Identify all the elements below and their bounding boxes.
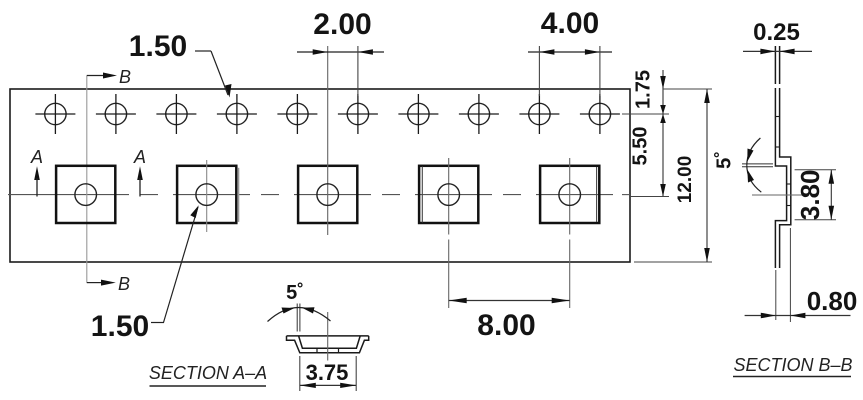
svg-text:1.75: 1.75: [632, 70, 654, 109]
sprocket hole S1: [35, 94, 75, 134]
svg-text:0.25: 0.25: [753, 19, 800, 46]
svg-text:0.80: 0.80: [807, 286, 858, 316]
title SECTION A-A: [149, 363, 267, 386]
dim 5.50: [629, 114, 669, 197]
pocket P3: [298, 46, 357, 235]
dim 4.00: [528, 7, 612, 96]
dim 0.80: [745, 228, 858, 322]
dim 0.25: [743, 19, 812, 54]
svg-text:8.00: 8.00: [477, 309, 535, 342]
title SECTION B-B: [733, 355, 853, 377]
svg-text:B: B: [119, 67, 131, 87]
sprocket hole S5: [277, 94, 317, 134]
pocket P5: [540, 158, 599, 308]
sprocket ticks: [775, 116, 779, 118]
sprocket hole S4: [217, 94, 257, 134]
svg-text:5.50: 5.50: [629, 127, 651, 166]
horizontal centerline: [8, 194, 630, 196]
sprocket hole S3: [156, 94, 196, 134]
tape outline: [10, 89, 630, 262]
pocket P2: [177, 160, 238, 232]
right surface line: [779, 46, 781, 84]
svg-text:5˚: 5˚: [712, 151, 735, 169]
svg-text:5˚: 5˚: [286, 281, 304, 304]
pocket P1: [56, 166, 115, 223]
svg-text:1.50: 1.50: [129, 30, 187, 63]
section B-B profile: [775, 46, 790, 268]
sprocket hole S8: [459, 94, 499, 134]
dim 1.50 top with leader: [129, 30, 232, 98]
svg-text:SECTION B–B: SECTION B–B: [733, 355, 852, 375]
sprocket hole S2: [96, 94, 136, 134]
section A-A profile: [287, 336, 369, 353]
angle 5 deg B-B: [712, 138, 773, 192]
pocket hole ticks: [787, 183, 791, 185]
left surface line: [774, 46, 776, 84]
svg-text:3.75: 3.75: [306, 360, 349, 385]
dim 3.80: [795, 169, 836, 220]
dim 8.00: [449, 298, 570, 342]
svg-text:SECTION A–A: SECTION A–A: [149, 363, 267, 383]
section B-B centerline: [752, 194, 808, 196]
sprocket hole S9: [519, 94, 559, 134]
cutting arrow A left: [30, 147, 43, 197]
dim 12.00: [634, 89, 712, 262]
section A-A centerline: [327, 312, 329, 361]
dim 3.75: [300, 356, 356, 391]
svg-text:3.80: 3.80: [795, 169, 825, 220]
section line B-B vertical: [86, 76, 88, 283]
section marker B bottom: [87, 274, 130, 294]
dim 1.75: [622, 70, 669, 197]
pocket P4: [419, 158, 478, 308]
svg-text:1.50: 1.50: [91, 310, 149, 343]
sprocket hole S7: [398, 94, 438, 134]
dim 2.00: [297, 8, 384, 96]
svg-text:A: A: [30, 147, 43, 167]
section marker B top: [87, 67, 131, 87]
sprocket hole S6: [338, 94, 378, 134]
cutting arrow A right: [133, 147, 146, 197]
svg-text:A: A: [133, 147, 146, 167]
dim 1.50 bottom with leader: [91, 205, 199, 343]
angle 5 deg A-A: [268, 281, 331, 332]
svg-text:2.00: 2.00: [313, 8, 371, 41]
svg-text:4.00: 4.00: [541, 7, 599, 40]
svg-text:12.00: 12.00: [675, 156, 696, 204]
sprocket hole S10: [580, 94, 620, 134]
svg-text:B: B: [118, 274, 130, 294]
